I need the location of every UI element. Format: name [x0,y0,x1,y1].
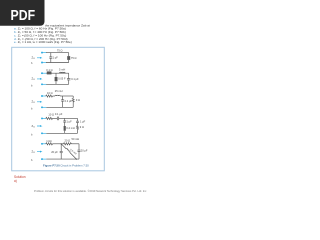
capacitor C4b middle branch upper C4 [64,118,66,120]
svg-text:0.1 μF: 0.1 μF [55,112,63,116]
resistor R4a zigzag on top wire C4 [46,117,53,119]
svg-text:50 mH: 50 mH [72,137,80,141]
wire lead a C3 [42,95,46,97]
node b terminal C2 [41,83,43,85]
svg-text:1 μF: 1 μF [67,120,73,124]
arrow Zab C5 [37,151,41,152]
svg-text:Z₀₁: Z₀₁ [32,124,36,128]
wire bottom C4 [46,132,77,134]
node b terminal C5 [41,158,43,160]
svg-text:0.1 μF: 0.1 μF [71,77,79,81]
wire top C4 [53,117,58,119]
inductor L5a diagonal branch C5 [61,144,66,149]
arrow Zab C2 [37,78,41,79]
node a terminal C2 [41,72,43,74]
wire lead b C5 [42,158,46,160]
capacitor C5b right branch [78,144,80,150]
arrow Zab C4 [37,125,41,126]
svg-text:10 Ω: 10 Ω [48,113,54,117]
capacitor C4a on top wire C4 [56,117,58,121]
node b terminal C4 [41,132,43,134]
wire bottom C3 [46,106,73,108]
resistor R4b middle branch lower C4 [64,122,66,126]
svg-text:Z₀ = 1 kΩ, w = 1000 rad/s (Fig: Z₀ = 1 kΩ, w = 1000 rad/s (Fig. P7.50e) [18,40,72,44]
node b terminal C3 [41,106,43,108]
wire top C3 [53,95,56,97]
wire lead a C2 [42,72,47,74]
wire lead b C1 [42,62,47,64]
svg-text:5 mH: 5 mH [59,67,65,71]
svg-text:0.4 mH: 0.4 mH [66,126,74,130]
resistor R2a on top wire C2 [47,71,52,74]
capacitor C2a right branch [68,73,70,78]
node b terminal C1 [41,62,43,64]
wire top C1 [46,52,69,54]
inductor L3a on top wire C3 [55,94,60,97]
svg-text:20 μF: 20 μF [81,149,88,153]
wire lead a C4 [42,117,46,119]
svg-text:Problem circuits for this solu: Problem circuits for this solution is av… [34,189,147,193]
svg-text:10 Ω: 10 Ω [47,91,53,95]
resistor R1a right branch [68,53,70,57]
node a terminal C4 [41,117,43,119]
junction node T C5 [61,143,62,144]
svg-text:Z₀₁: Z₀₁ [32,100,36,104]
resistor R5a zigzag on top wire C5 [46,143,53,145]
node a terminal C1 [41,52,43,54]
svg-text:0.1 Ω: 0.1 Ω [46,68,52,72]
svg-text:PDF: PDF [11,7,36,24]
svg-text:1 μF: 1 μF [80,120,86,124]
node a terminal C5 [41,143,43,145]
resistor R5b zigzag on top wire C5 [64,143,72,145]
resistor R3b right branch (vertical zigzag) [72,96,74,98]
svg-text:75 Ω: 75 Ω [57,48,63,52]
svg-text:Z₀₁: Z₀₁ [32,77,36,81]
svg-text:1 μF: 1 μF [53,55,59,59]
svg-text:9 Ω: 9 Ω [76,98,80,102]
wire bottom C2 [46,83,68,85]
resistor R4c right branch lower (vertical zigzag) C4 [77,123,79,126]
svg-text:Z₀₁: Z₀₁ [32,56,36,60]
svg-text:75 Ω: 75 Ω [71,56,77,60]
resistor R3a zigzag on top wire C3 [46,95,53,97]
figure frame (blue box) [12,47,105,171]
wire lead b C2 [42,83,47,85]
svg-text:25 mH: 25 mH [55,89,63,93]
capacitor C3a middle branch [62,96,64,100]
capacitor C5a middle branch [60,144,62,151]
junction node bottom C5 [76,159,77,160]
capacitor C4c right branch upper C4 [77,118,79,121]
wire bottom C5 [46,158,79,160]
wire lead a C1 [42,52,47,54]
capacitor C1a branch [50,53,52,57]
resistor R2b middle branch C2 [55,73,57,77]
svg-text:e.: e. [14,40,17,44]
svg-text:0.05 F: 0.05 F [58,77,66,81]
wire bottom C1 [46,62,69,64]
wire lead a C5 [42,143,46,145]
wire top C2 [46,72,68,74]
svg-text:20 μF: 20 μF [51,150,58,154]
svg-text:a): a) [14,179,17,183]
node a terminal C3 [41,95,43,97]
svg-text:Z₀₁: Z₀₁ [32,149,36,153]
svg-text:9 Ω: 9 Ω [80,125,84,129]
PDF badge [0,0,45,26]
arrow Zab C1 [37,57,41,58]
wire lead b C3 [42,106,46,108]
svg-text:0.2 μF: 0.2 μF [65,99,73,103]
svg-text:1 kΩ: 1 kΩ [46,139,51,143]
arrow Zab C3 [37,101,41,102]
inductor L2a on top wire C2 [60,71,66,74]
wire top C5 [53,143,64,145]
wire lead b C4 [42,132,46,134]
svg-text:20 Ω: 20 Ω [65,139,71,143]
svg-text:Figure P7.50 Circuit in Proble: Figure P7.50 Circuit in Problem 7.50 [43,163,89,167]
page background [0,0,149,198]
